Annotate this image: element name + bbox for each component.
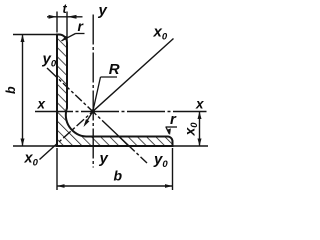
dimension t line with outside arrows [47,16,83,18]
svg-text:y: y [98,2,108,19]
centroid node [91,109,95,113]
b left extension lines [13,34,57,36]
angle section outline [57,35,173,147]
dimension t extension lines [56,12,58,33]
svg-text:x: x [195,97,204,112]
b bottom dimension line [57,185,173,187]
svg-text:b: b [114,168,123,184]
svg-text:R: R [109,61,120,78]
b bottom extension lines [56,148,58,190]
x0 axis (diagonal) [40,39,174,160]
x axis (horizontal centerline) [35,111,207,113]
y0 axis (diagonal) [47,68,147,163]
b left dimension line [22,35,24,147]
R arrow to fillet [85,112,93,125]
svg-text:y: y [99,150,109,167]
angle section body (hatched) [57,35,173,147]
r leader (top toe radius) [76,33,85,35]
svg-text:b: b [4,86,18,94]
svg-text:x: x [37,97,46,112]
x0 right dimension line [199,112,201,147]
r leader right toe [166,126,178,128]
R leader [101,76,118,78]
y axis (vertical centerline) [92,15,94,168]
x0 right dimension extension line (bottom) [173,145,209,147]
